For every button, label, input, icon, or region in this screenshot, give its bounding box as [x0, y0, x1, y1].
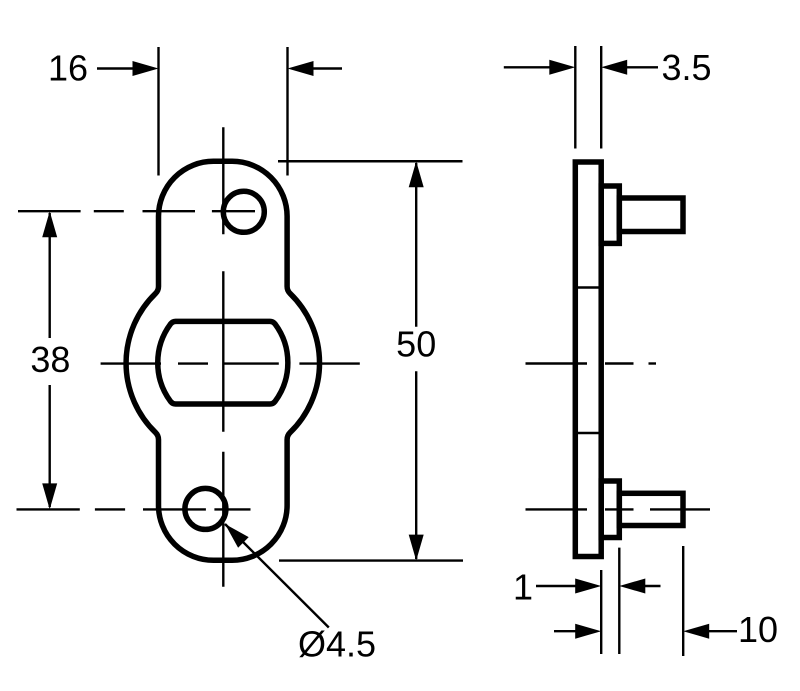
front view outline — [126, 161, 319, 560]
svg-text:38: 38 — [30, 339, 70, 380]
bottom hole centerline (dashed, y=509.4) — [17, 508, 251, 510]
bottom hole — [185, 488, 226, 529]
side bottom centerline — [526, 508, 711, 510]
svg-text:1: 1 — [513, 567, 533, 608]
side view plate thin edge lines — [575, 288, 601, 434]
dimension 50 — [278, 161, 463, 560]
svg-text:50: 50 — [396, 324, 436, 365]
dimension 10 — [554, 546, 737, 656]
svg-text:3.5: 3.5 — [662, 47, 712, 88]
leader Ø4.5 — [225, 524, 329, 628]
side view plate — [575, 162, 601, 557]
upper stud flange — [601, 186, 619, 243]
dimension 38 — [49, 213, 51, 507]
top hole centerline (dashed, y=211.2) — [18, 210, 255, 212]
dimension 16 — [97, 47, 342, 176]
svg-text:Ø4.5: Ø4.5 — [298, 624, 376, 665]
side mid centerline — [526, 362, 657, 364]
lower stud flange — [601, 481, 619, 538]
dimension 1 — [536, 548, 661, 654]
dimension 3.5 — [504, 46, 658, 149]
horizontal centerline mid front — [101, 362, 360, 364]
central cutout — [158, 321, 288, 404]
lower stud pin — [619, 493, 683, 525]
upper stud pin — [619, 198, 683, 232]
svg-text:10: 10 — [738, 609, 778, 650]
svg-text:16: 16 — [48, 48, 88, 89]
vertical centerline front — [222, 127, 224, 586]
top hole — [223, 191, 264, 232]
